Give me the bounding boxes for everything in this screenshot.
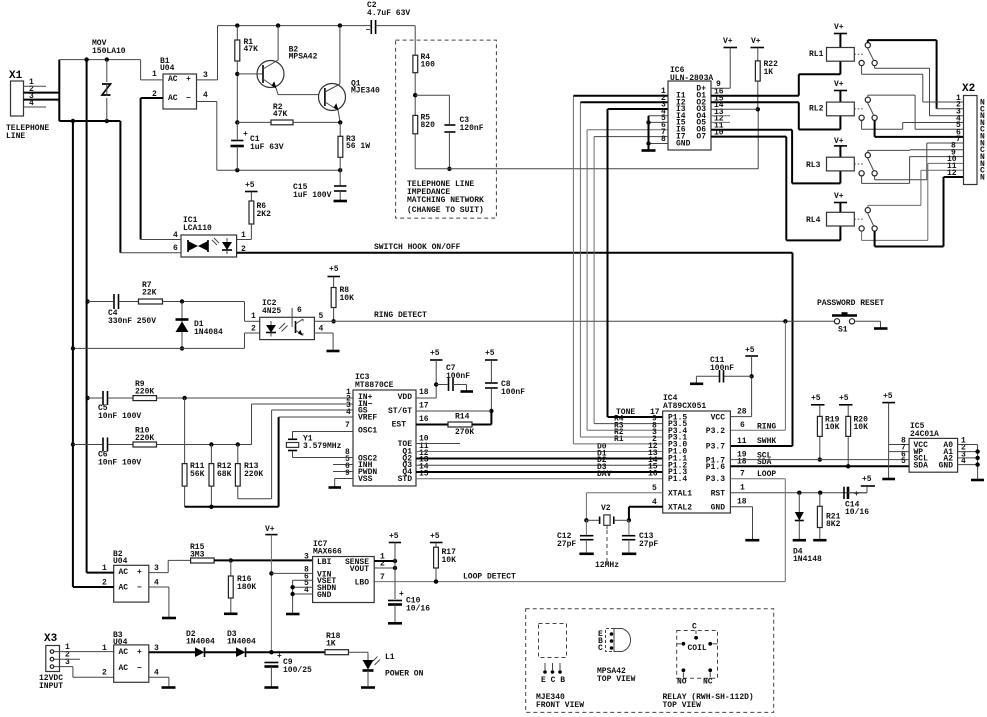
- resistor R15 3M3: [190, 543, 313, 563]
- capacitor C12 27pF: [557, 520, 594, 554]
- resistor R20 10K: [846, 416, 868, 469]
- svg-text:RING: RING: [757, 422, 776, 431]
- svg-text:VOUT: VOUT: [350, 565, 369, 574]
- svg-text:SWHK: SWHK: [757, 437, 776, 446]
- svg-text:AC: AC: [119, 584, 129, 593]
- svg-text:10nF 100V: 10nF 100V: [98, 459, 141, 468]
- wire switch hook on/off net: [237, 243, 793, 446]
- svg-text:24C01A: 24C01A: [910, 430, 939, 439]
- SECTION: package drawings: [526, 609, 774, 713]
- svg-text:VREF: VREF: [358, 414, 377, 423]
- svg-text:RL2: RL2: [809, 105, 824, 114]
- svg-text:AC: AC: [168, 75, 178, 84]
- svg-text:V+: V+: [834, 192, 844, 201]
- wire ring detect net: [314, 311, 835, 430]
- svg-text:P1.6: P1.6: [706, 463, 725, 472]
- wire INH PWDN stubs: [333, 465, 353, 472]
- svg-text:U04: U04: [113, 557, 128, 566]
- diode D2 1N4004: [186, 630, 236, 657]
- relay RL3: [806, 137, 877, 176]
- svg-text:AC: AC: [119, 568, 129, 577]
- svg-text:LBI: LBI: [317, 558, 332, 567]
- svg-text:COIL: COIL: [688, 644, 707, 653]
- wire bus vertical R2: [580, 102, 668, 437]
- resistor R10 220K: [133, 404, 353, 447]
- wire RL1 NO to X2 pin3: [875, 66, 964, 116]
- svg-text:7: 7: [956, 135, 961, 144]
- svg-text:EST: EST: [392, 421, 407, 430]
- transistor B2 MPSA42: [237, 26, 317, 95]
- svg-text:−: −: [137, 584, 142, 593]
- svg-text:VSS: VSS: [358, 475, 373, 484]
- resistor R4 100: [413, 26, 435, 116]
- svg-text:100nF: 100nF: [501, 388, 525, 397]
- driver IC6 ULN-2803A: [661, 66, 724, 150]
- capacitor C9 100/25: [264, 652, 312, 688]
- svg-text:16: 16: [419, 415, 429, 424]
- svg-text:1uF 63V: 1uF 63V: [250, 143, 284, 152]
- svg-text:O7: O7: [696, 133, 706, 142]
- svg-text:12: 12: [947, 169, 957, 178]
- resistor R16 180K: [224, 560, 256, 613]
- connector X2: [947, 83, 985, 185]
- relay RL1: [809, 23, 877, 66]
- svg-text:+: +: [243, 130, 248, 139]
- svg-text:100nF: 100nF: [710, 364, 734, 373]
- connector X1: [6, 70, 59, 141]
- wire O6 to RL3: [711, 130, 840, 184]
- svg-text:+5: +5: [839, 394, 849, 403]
- capacitor C11 100nF: [690, 356, 752, 384]
- wire RL3 NO to X2 pin7: [875, 143, 964, 180]
- wire B2 emitter to Q1 base: [278, 94, 325, 96]
- svg-text:C: C: [692, 623, 697, 632]
- capacitor C2 4.7uF 63V: [366, 1, 415, 34]
- wire VREF net: [185, 417, 353, 507]
- svg-text:V+: V+: [265, 525, 275, 534]
- wire SDA net: [730, 465, 909, 467]
- svg-text:+5: +5: [389, 532, 399, 541]
- eeprom IC5 24C01A: [901, 422, 966, 472]
- +5 supply output: [389, 532, 401, 599]
- svg-text:LINE: LINE: [6, 132, 25, 141]
- svg-text:3.579MHz: 3.579MHz: [303, 442, 342, 451]
- svg-text:+5: +5: [811, 394, 821, 403]
- wire SENSE VOUT to +5 rail: [374, 559, 397, 570]
- wire ring rail bottom: [59, 119, 120, 123]
- wire B1 pin2 to IC1 pin4: [141, 98, 181, 240]
- wire left rail B (to B2 pin2): [72, 121, 74, 587]
- pushbutton S1 password reset: [817, 299, 888, 335]
- wire ST/GT: [416, 410, 491, 412]
- resistor R13 220K: [235, 445, 271, 499]
- svg-text:X2: X2: [962, 83, 975, 95]
- wire IC4 GND to ground: [730, 507, 759, 540]
- svg-text:4: 4: [154, 669, 159, 678]
- svg-text:RING DETECT: RING DETECT: [374, 311, 427, 320]
- svg-text:2: 2: [102, 669, 107, 678]
- svg-text:+: +: [854, 490, 859, 499]
- wire RL4 common to X2 pin11: [868, 170, 964, 207]
- svg-text:4.7uF 63V: 4.7uF 63V: [367, 9, 410, 18]
- svg-text:+: +: [137, 568, 142, 577]
- svg-text:100: 100: [421, 61, 436, 70]
- resistor R14 270K: [416, 411, 491, 437]
- resistor R21 8K2: [813, 493, 840, 541]
- svg-text:INPUT: INPUT: [39, 682, 63, 691]
- resistor R2 47K: [237, 103, 342, 125]
- capacitor C14 10/16: [844, 487, 869, 517]
- wire O7 to RL4: [711, 137, 840, 241]
- led L1 power on: [361, 653, 424, 688]
- svg-text:RL3: RL3: [806, 161, 821, 170]
- diode D1 1N4084: [176, 302, 224, 351]
- transistor Q1 MJE340: [319, 26, 381, 123]
- regulator IC7 MAX666: [304, 540, 385, 603]
- svg-text:ST/GT: ST/GT: [388, 407, 412, 416]
- svg-text:LCA110: LCA110: [183, 224, 212, 233]
- svg-text:C: C: [598, 644, 603, 653]
- +5 supply for R20: [839, 394, 853, 416]
- svg-text:TOP VIEW: TOP VIEW: [663, 701, 702, 710]
- svg-text:5: 5: [901, 457, 906, 466]
- capacitor C1 1uF 63V: [231, 122, 284, 170]
- +5 supply at C14: [861, 475, 875, 486]
- crystal V2 12MHz: [584, 493, 663, 570]
- wire IC2 input loop: [71, 302, 260, 351]
- wire O3 to R22 node: [711, 108, 758, 110]
- V+ supply rail: [265, 525, 278, 654]
- svg-text:6: 6: [173, 244, 178, 253]
- svg-text:+: +: [137, 648, 142, 657]
- svg-text:2K2: 2K2: [257, 210, 272, 219]
- svg-text:P1.4: P1.4: [668, 475, 687, 484]
- svg-text:27pF: 27pF: [639, 540, 658, 549]
- resistor R6 2K2: [237, 201, 272, 240]
- svg-text:4: 4: [203, 91, 208, 100]
- svg-text:4: 4: [154, 579, 159, 588]
- +5 supply above C7: [430, 349, 443, 398]
- resistor R5 820: [413, 114, 435, 169]
- svg-text:TOP VIEW: TOP VIEW: [597, 675, 636, 684]
- svg-text:8: 8: [661, 135, 666, 144]
- svg-text:10/16: 10/16: [845, 508, 869, 517]
- resistor R12 68K: [209, 445, 232, 509]
- wire B1 pin3 up to top rail: [197, 23, 371, 80]
- wire LOOP net: [374, 479, 785, 582]
- svg-text:1: 1: [241, 231, 246, 240]
- svg-text:+5: +5: [329, 265, 339, 274]
- wire bus vertical R4: [594, 137, 668, 424]
- svg-text:22K: 22K: [142, 289, 157, 298]
- svg-text:+: +: [277, 652, 282, 661]
- svg-text:68K: 68K: [217, 470, 232, 479]
- svg-text:+5: +5: [245, 181, 255, 190]
- capacitor C7 100nF: [436, 364, 473, 392]
- svg-text:+: +: [399, 590, 404, 599]
- svg-text:RL4: RL4: [806, 216, 821, 225]
- svg-text:56 1W: 56 1W: [346, 142, 370, 151]
- relay RL2: [809, 80, 877, 120]
- relay top view drawing: [663, 623, 754, 711]
- svg-text:(CHANGE TO SUIT): (CHANGE TO SUIT): [407, 206, 484, 215]
- wire to IC1 pin6: [120, 121, 181, 253]
- wire data bus Q1-D0: [416, 451, 663, 453]
- relay RL4: [806, 192, 877, 231]
- svg-text:V+: V+: [751, 37, 761, 46]
- +5 supply above C8: [485, 349, 498, 382]
- wire B3 pin3 positive: [149, 651, 195, 653]
- svg-text:4: 4: [319, 325, 324, 334]
- svg-text:VCC: VCC: [711, 414, 726, 423]
- diode D3 1N4004: [227, 630, 325, 657]
- svg-text:X1: X1: [9, 70, 23, 82]
- resistor R22 1K: [755, 60, 778, 112]
- svg-text:180K: 180K: [237, 583, 256, 592]
- +5 supply for R8: [328, 265, 341, 288]
- svg-text:47K: 47K: [244, 45, 259, 54]
- svg-text:S1: S1: [838, 326, 848, 335]
- wire IC6 input grounding: [642, 116, 669, 151]
- MPSA42 top view drawing: [597, 629, 636, 685]
- V+ supply for IC6 D+: [711, 37, 737, 88]
- wire O4 stub: [711, 115, 730, 117]
- svg-text:TONE: TONE: [616, 408, 635, 417]
- svg-text:100nF: 100nF: [446, 372, 470, 381]
- +5 supply for R6: [245, 181, 258, 201]
- dashed box package drawings: [526, 609, 774, 713]
- dashed box: impedance matching network: [396, 40, 497, 218]
- svg-text:2: 2: [251, 325, 256, 334]
- svg-text:120nF: 120nF: [460, 124, 484, 133]
- svg-text:E C B: E C B: [541, 676, 565, 685]
- wire VDD: [416, 397, 436, 399]
- bridge rectifier B3: [102, 631, 159, 682]
- V+ supply for R22: [751, 37, 765, 61]
- svg-text:MT8870CE: MT8870CE: [355, 381, 394, 390]
- svg-text:7: 7: [740, 470, 745, 479]
- svg-text:5: 5: [319, 312, 324, 321]
- svg-text:P3.7: P3.7: [706, 443, 725, 452]
- svg-text:330nF 250V: 330nF 250V: [108, 317, 156, 326]
- bridge rectifier B2: [73, 550, 159, 602]
- SECTION: power supply bottom: [39, 525, 456, 691]
- svg-text:XTAL1: XTAL1: [668, 490, 692, 499]
- wire IC5 address pins to ground: [958, 445, 984, 481]
- MJE340 front view drawing: [536, 624, 584, 711]
- svg-text:1: 1: [740, 484, 745, 493]
- svg-text:LOOP: LOOP: [757, 470, 776, 479]
- svg-text:MJE340: MJE340: [351, 87, 380, 96]
- svg-text:10/16: 10/16: [406, 605, 430, 614]
- svg-text:28: 28: [737, 408, 747, 417]
- svg-text:X3: X3: [44, 633, 58, 645]
- wire GS net: [272, 410, 353, 499]
- svg-text:AT89CX051: AT89CX051: [663, 402, 706, 411]
- SECTION: hook switch / ring detect: [71, 181, 888, 446]
- svg-text:V+: V+: [834, 80, 844, 89]
- svg-text:4N25: 4N25: [262, 307, 281, 316]
- wire TOE stub: [416, 443, 460, 445]
- wire B2 pin4 to ground: [149, 587, 176, 618]
- svg-text:AC: AC: [119, 664, 129, 673]
- wire RL2 NO to X2 pin6: [875, 120, 964, 136]
- resistor R19 10K: [817, 416, 839, 462]
- diode D4 1N4148: [793, 493, 822, 564]
- svg-text:4: 4: [652, 498, 657, 507]
- MOV 150LA10: [92, 39, 126, 121]
- wire phone line audio out: [415, 109, 758, 169]
- svg-text:L1: L1: [385, 653, 395, 662]
- capacitor C3 120nF: [415, 95, 484, 171]
- svg-text:N: N: [980, 174, 985, 183]
- +5 supply for VCC: [730, 346, 758, 417]
- SECTION: DTMF decoder IC3: [71, 96, 668, 509]
- DTMF decoder IC3 MT8870CE: [345, 373, 429, 486]
- svg-text:+5: +5: [485, 349, 495, 358]
- wire RL3 NC to X2 pin9: [862, 157, 964, 184]
- SECTION: telephone line input: [6, 1, 758, 587]
- wire SCL net: [730, 459, 909, 461]
- wire X1 to B1 pin1: [141, 60, 163, 80]
- wire VSS to ground: [329, 479, 354, 488]
- svg-text:RL1: RL1: [809, 50, 824, 59]
- wire left rail A (to B2 pin1): [86, 60, 88, 573]
- wire B3 pin4 to ground: [149, 677, 176, 687]
- svg-text:GND: GND: [711, 504, 726, 513]
- svg-text:27pF: 27pF: [557, 540, 576, 549]
- svg-text:PASSWORD RESET: PASSWORD RESET: [817, 299, 884, 308]
- svg-text:47K: 47K: [273, 110, 288, 119]
- SECTION: ULN2803 relays X2: [642, 23, 986, 247]
- svg-text:3: 3: [203, 71, 208, 80]
- capacitor C4 330nF 250V: [85, 294, 156, 326]
- wire RL2 NC to X2 pin4: [862, 120, 964, 129]
- svg-text:1N4148: 1N4148: [793, 555, 822, 564]
- wire RL1 common to X2 pin2: [868, 40, 964, 109]
- svg-text:16: 16: [648, 470, 658, 479]
- svg-text:−: −: [186, 94, 191, 103]
- wire B2 pin3 to R15: [149, 560, 191, 572]
- svg-text:10K: 10K: [854, 423, 869, 432]
- svg-text:1K: 1K: [326, 640, 336, 649]
- capacitor C5 10nF 100V: [85, 391, 141, 421]
- crystal Y1 3.579MHz: [286, 432, 353, 458]
- wire data bus STD-DAV: [416, 478, 663, 480]
- svg-text:1N4004: 1N4004: [227, 638, 256, 647]
- +5 supply for IC5: [882, 392, 909, 479]
- microcontroller IC4 AT89CX051: [648, 394, 776, 513]
- svg-text:LBO: LBO: [355, 579, 370, 588]
- resistor R11 56K: [182, 398, 204, 507]
- svg-text:100/25: 100/25: [283, 666, 312, 675]
- connector X3: [39, 633, 114, 691]
- svg-text:RST: RST: [711, 490, 726, 499]
- svg-text:SDA: SDA: [914, 462, 929, 471]
- wire RST net: [730, 491, 867, 495]
- svg-text:R14: R14: [455, 413, 470, 422]
- svg-text:DAV: DAV: [597, 470, 612, 479]
- svg-text:18: 18: [419, 388, 429, 397]
- svg-text:1: 1: [102, 644, 107, 653]
- svg-text:MATCHING NETWORK: MATCHING NETWORK: [407, 196, 484, 205]
- svg-text:MAX666: MAX666: [313, 548, 342, 557]
- svg-text:XTAL2: XTAL2: [668, 504, 692, 513]
- capacitor C13 27pF: [622, 520, 659, 554]
- svg-text:220K: 220K: [244, 470, 263, 479]
- wire RL2 common to X2 pin5: [868, 95, 964, 129]
- svg-text:NO: NO: [677, 678, 687, 687]
- capacitor C6 10nF 100V: [71, 438, 142, 468]
- svg-text:10K: 10K: [825, 423, 840, 432]
- svg-text:VDD: VDD: [398, 393, 413, 402]
- svg-text:7: 7: [345, 421, 350, 430]
- resistor R3 56 1W: [338, 122, 370, 170]
- svg-text:POWER ON: POWER ON: [385, 670, 424, 679]
- wire O2 to RL2: [711, 102, 840, 129]
- svg-text:STD: STD: [398, 475, 413, 484]
- SECTION: MCU IC4 and EEPROM: [374, 346, 984, 582]
- svg-text:7: 7: [380, 573, 385, 582]
- svg-text:3: 3: [304, 553, 309, 562]
- svg-text:10K: 10K: [442, 556, 457, 565]
- svg-text:6: 6: [740, 421, 745, 430]
- svg-text:+5: +5: [745, 346, 755, 355]
- wire RL3 common to X2 pin8: [868, 150, 964, 153]
- optocoupler IC1 LCA110: [173, 216, 246, 257]
- svg-text:17: 17: [419, 402, 429, 411]
- svg-text:5: 5: [652, 484, 657, 493]
- resistor R18 1K: [325, 632, 368, 660]
- node labels D0-DAV: [597, 443, 612, 479]
- resistor R8 10K: [331, 286, 354, 323]
- svg-text:18: 18: [737, 498, 747, 507]
- wire data bus Q2-D1: [416, 458, 663, 460]
- svg-text:270K: 270K: [455, 428, 474, 437]
- svg-text:MPSA42: MPSA42: [289, 53, 318, 62]
- svg-text:56K: 56K: [190, 470, 205, 479]
- svg-text:+: +: [186, 75, 191, 84]
- svg-text:V+: V+: [834, 137, 844, 146]
- optocoupler IC2 4N25: [251, 299, 324, 340]
- svg-text:NC: NC: [703, 678, 713, 687]
- svg-text:1K: 1K: [764, 68, 774, 77]
- svg-text:8K2: 8K2: [826, 520, 841, 529]
- svg-text:1: 1: [251, 312, 256, 321]
- svg-text:820: 820: [421, 121, 436, 130]
- bridge rectifier B1: [152, 57, 208, 109]
- svg-text:6: 6: [297, 306, 302, 315]
- wire IC2 pin4 to ground: [314, 333, 339, 351]
- wire RL4 NO to X2 pin12: [875, 177, 964, 247]
- svg-text:GND: GND: [317, 591, 332, 600]
- wire bus vertical R3: [587, 130, 668, 431]
- svg-text:1N4084: 1N4084: [194, 328, 223, 337]
- wire O5 stub: [711, 121, 730, 123]
- svg-text:AC: AC: [119, 648, 129, 657]
- wire VIN from V+: [271, 572, 312, 574]
- svg-text:1N4004: 1N4004: [186, 638, 215, 647]
- svg-text:4: 4: [346, 408, 351, 417]
- resistor R17 10K: [434, 547, 457, 584]
- capacitor C15 1uF 100V: [293, 170, 347, 201]
- svg-text:4: 4: [173, 231, 178, 240]
- svg-text:1uF 100V: 1uF 100V: [293, 191, 332, 200]
- capacitor C10 10/16: [388, 590, 430, 623]
- svg-text:GND: GND: [676, 140, 691, 149]
- wire RL1 NC to X2 pin1: [862, 66, 964, 102]
- wire VSET SHDN GND to ground: [286, 580, 313, 614]
